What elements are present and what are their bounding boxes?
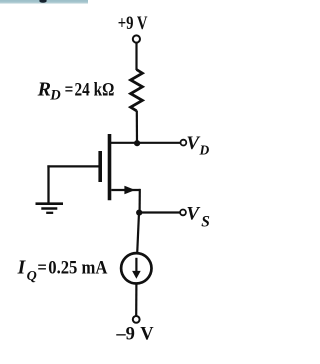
- svg-text:V: V: [186, 133, 200, 154]
- svg-text:= 0.25 mA: = 0.25 mA: [37, 257, 107, 278]
- svg-text:D: D: [199, 143, 210, 158]
- svg-text:R: R: [37, 78, 51, 100]
- svg-text:= 24 kΩ: = 24 kΩ: [65, 79, 115, 100]
- svg-text:–9: –9: [115, 325, 134, 345]
- svg-text:Q: Q: [27, 269, 37, 284]
- svg-text:I: I: [17, 257, 27, 278]
- svg-text:S: S: [201, 213, 210, 230]
- svg-text:+9 V: +9 V: [118, 14, 148, 34]
- svg-text:D: D: [49, 88, 61, 104]
- svg-text:V: V: [140, 325, 154, 345]
- svg-text:V: V: [186, 203, 200, 224]
